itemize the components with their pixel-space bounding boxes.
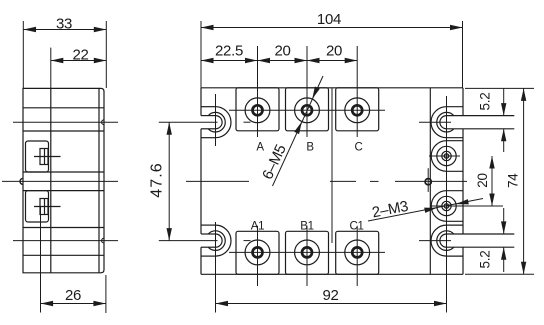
dimension 20 first line bbox=[258, 60, 308, 62]
svg-text:C1: C1 bbox=[349, 221, 363, 233]
dimension 20 right arrows bbox=[489, 156, 494, 169]
terminal B screw hole bbox=[302, 105, 312, 115]
dimension 5.2 bottom arrow down bbox=[501, 221, 506, 234]
M3 hole H2 centerline extension bbox=[430, 205, 503, 207]
dimension 104 line bbox=[201, 27, 463, 29]
svg-text:22.5: 22.5 bbox=[215, 43, 243, 60]
top terminal row centerline bbox=[229, 109, 385, 111]
dimension 92 line bbox=[216, 303, 447, 305]
bottom terminal row centerline bbox=[229, 251, 385, 253]
svg-text:B: B bbox=[306, 142, 314, 154]
top view top edge bbox=[201, 87, 463, 89]
dimension 74 arrows bbox=[521, 88, 526, 101]
svg-text:74: 74 bbox=[506, 173, 521, 188]
terminal pad A bbox=[236, 88, 279, 131]
side view horizontal line y190 bbox=[23, 190, 104, 192]
dimension 22 arrow left bbox=[51, 58, 64, 63]
M3 hole H2 tab and circles bbox=[447, 190, 464, 192]
top view bottom edge bbox=[201, 273, 463, 275]
svg-text:5.2: 5.2 bbox=[478, 93, 493, 111]
side view right edge notch top bbox=[102, 120, 104, 125]
mounting slot bottom right bbox=[447, 224, 464, 226]
M3 hole H1 centerline bbox=[429, 155, 460, 157]
dimension 47.6 arrows bbox=[167, 122, 172, 135]
terminal pad B bbox=[286, 88, 329, 131]
dimension 104 extension right bbox=[462, 21, 464, 88]
terminal screw upper profile bbox=[40, 149, 48, 165]
terminal C1 vertical centerline bbox=[356, 226, 358, 286]
leader 6-M5 arrow lower bbox=[294, 122, 302, 135]
dimension 5.2 top arrow up bbox=[501, 129, 506, 142]
top view left edge segments bbox=[200, 88, 202, 116]
svg-text:5.2: 5.2 bbox=[478, 251, 493, 269]
dimension 26 extension line right bbox=[105, 275, 107, 313]
dimension 92 arrows bbox=[216, 301, 229, 306]
side view horizontal line y108 bbox=[23, 107, 104, 109]
terminal A screw hole bbox=[253, 105, 263, 115]
leader 6-M5 arrow upper bbox=[312, 87, 320, 100]
svg-text:33: 33 bbox=[56, 16, 72, 33]
svg-text:47.6: 47.6 bbox=[148, 162, 165, 198]
small center hole bbox=[425, 179, 431, 185]
dimension 20 right line bbox=[491, 156, 493, 206]
dimension 5.2 top line upper tail bbox=[503, 88, 505, 115]
side view horizontal line y172 bbox=[23, 171, 104, 173]
terminal C outer circle bbox=[345, 98, 370, 123]
dimension 20 second arrows bbox=[307, 58, 320, 63]
dimension 26 arrow left bbox=[41, 301, 54, 306]
side view horizontal line y131 bbox=[23, 130, 104, 132]
main horizontal centerline bbox=[2, 180, 118, 182]
dimension 5.2 top line lower tail bbox=[503, 129, 505, 152]
terminal B outer circle bbox=[295, 98, 320, 123]
dimension 20 second line bbox=[307, 60, 357, 62]
terminal cover box lower bbox=[26, 191, 49, 222]
slot vertical centerline right bbox=[446, 96, 448, 313]
dimension 104 arrow left bbox=[201, 25, 214, 30]
dimension 26 extension line left bbox=[40, 207, 42, 313]
terminal screw lower profile bbox=[40, 199, 48, 215]
top view right baseplate edge segments bbox=[462, 88, 464, 116]
dimension 22.5 arrows bbox=[201, 58, 214, 63]
svg-text:B1: B1 bbox=[300, 221, 313, 233]
svg-text:C: C bbox=[354, 142, 362, 154]
dimension 5.2 bottom line upper tail bbox=[503, 208, 505, 234]
terminal pad B1 bbox=[286, 231, 329, 274]
terminal A vertical centerline bbox=[257, 46, 259, 137]
dimension 47.6 extension bottom bbox=[159, 240, 218, 242]
dimension 22 line bbox=[51, 60, 107, 62]
svg-text:22: 22 bbox=[72, 47, 88, 64]
terminal A1 screw hole bbox=[253, 247, 263, 257]
dimension 104 arrow right bbox=[450, 25, 463, 30]
mounting slot top left bbox=[201, 106, 216, 108]
dimension 47.6 line bbox=[168, 122, 170, 240]
dimension 74 extension top bbox=[465, 87, 534, 89]
terminal cover box upper bbox=[26, 141, 49, 172]
slot centerline bottom right bbox=[419, 240, 451, 242]
svg-text:20: 20 bbox=[274, 43, 290, 60]
mounting slot top right bbox=[447, 106, 464, 108]
dimension 104 extension left upper bbox=[200, 21, 202, 88]
dimension 33 arrow right bbox=[94, 27, 107, 32]
leader 2-M3 arrow right bbox=[456, 199, 469, 204]
dimension 74 line bbox=[523, 88, 525, 274]
terminal C screw hole bbox=[352, 105, 362, 115]
side view baseplate inner line bbox=[98, 88, 100, 272]
terminal A outer circle bbox=[245, 98, 270, 123]
dimension 33 arrow left bbox=[24, 27, 37, 32]
terminal C1 screw hole bbox=[352, 247, 362, 257]
leader 6-M5 line bbox=[273, 76, 324, 186]
svg-text:92: 92 bbox=[322, 287, 338, 304]
svg-text:26: 26 bbox=[65, 287, 81, 304]
terminal C vertical centerline bbox=[356, 46, 358, 137]
side view internal vertical line bbox=[50, 88, 52, 272]
dimension 5.2 bottom line lower tail bbox=[503, 247, 505, 272]
terminal A1 vertical centerline bbox=[257, 226, 259, 286]
terminal B1 vertical centerline bbox=[306, 226, 308, 286]
small center hole vertical centerline bbox=[427, 168, 429, 192]
terminal B1 screw hole bbox=[302, 247, 312, 257]
side view top slot centerline bbox=[13, 121, 118, 123]
slot vertical centerline left bbox=[215, 94, 217, 146]
dimension 5.2 bottom arrow up bbox=[501, 247, 506, 260]
terminal screw upper axis line bbox=[34, 156, 61, 158]
side view right edge notch bottom bbox=[102, 238, 104, 243]
slot centerline top right bbox=[419, 121, 451, 123]
leader 2-M3 line bbox=[368, 199, 483, 222]
side view body outline bbox=[23, 88, 104, 272]
terminal B1 outer circle bbox=[295, 240, 320, 265]
side view horizontal line y255 bbox=[23, 254, 104, 256]
dimension 26 arrow right bbox=[93, 301, 106, 306]
dimension 33 extension line right bbox=[105, 21, 107, 88]
svg-text:20: 20 bbox=[326, 43, 342, 60]
dimension 74 extension bottom bbox=[465, 273, 534, 275]
dimension 47.6 extension top bbox=[159, 121, 218, 123]
dimension 33 line bbox=[24, 29, 107, 31]
svg-text:A: A bbox=[256, 142, 264, 154]
svg-text:104: 104 bbox=[317, 11, 341, 28]
leader 2-M3 arrow left bbox=[424, 208, 437, 213]
M3 hole H1 tab and circles bbox=[447, 140, 464, 142]
side view left edge notch bbox=[20, 178, 23, 184]
svg-text:20: 20 bbox=[475, 173, 490, 187]
side view bottom slot centerline bbox=[13, 240, 118, 242]
side view horizontal line y227 bbox=[23, 227, 104, 229]
dimension 20 first arrows bbox=[258, 58, 271, 63]
dimension 22 arrow right bbox=[94, 58, 107, 63]
terminal screw lower axis line bbox=[34, 206, 61, 208]
terminal pad C1 bbox=[336, 231, 379, 274]
terminal B vertical centerline bbox=[306, 46, 308, 137]
top view housing right edge bbox=[429, 88, 431, 274]
mounting slot bottom left bbox=[201, 224, 216, 226]
dimension 22.5 line bbox=[201, 60, 258, 62]
terminal A1 outer circle bbox=[245, 240, 270, 265]
dimension 22 extension line left bbox=[50, 48, 52, 89]
terminal pad A1 bbox=[236, 231, 279, 274]
terminal C1 outer circle bbox=[345, 240, 370, 265]
part vertical centerline bbox=[331, 88, 333, 243]
dimension 26 line bbox=[41, 303, 106, 305]
dimension 33 extension line left bbox=[22, 21, 24, 88]
svg-text:A1: A1 bbox=[251, 221, 264, 233]
terminal pad C bbox=[336, 88, 379, 131]
dimension 5.2 top arrow down bbox=[501, 103, 506, 116]
